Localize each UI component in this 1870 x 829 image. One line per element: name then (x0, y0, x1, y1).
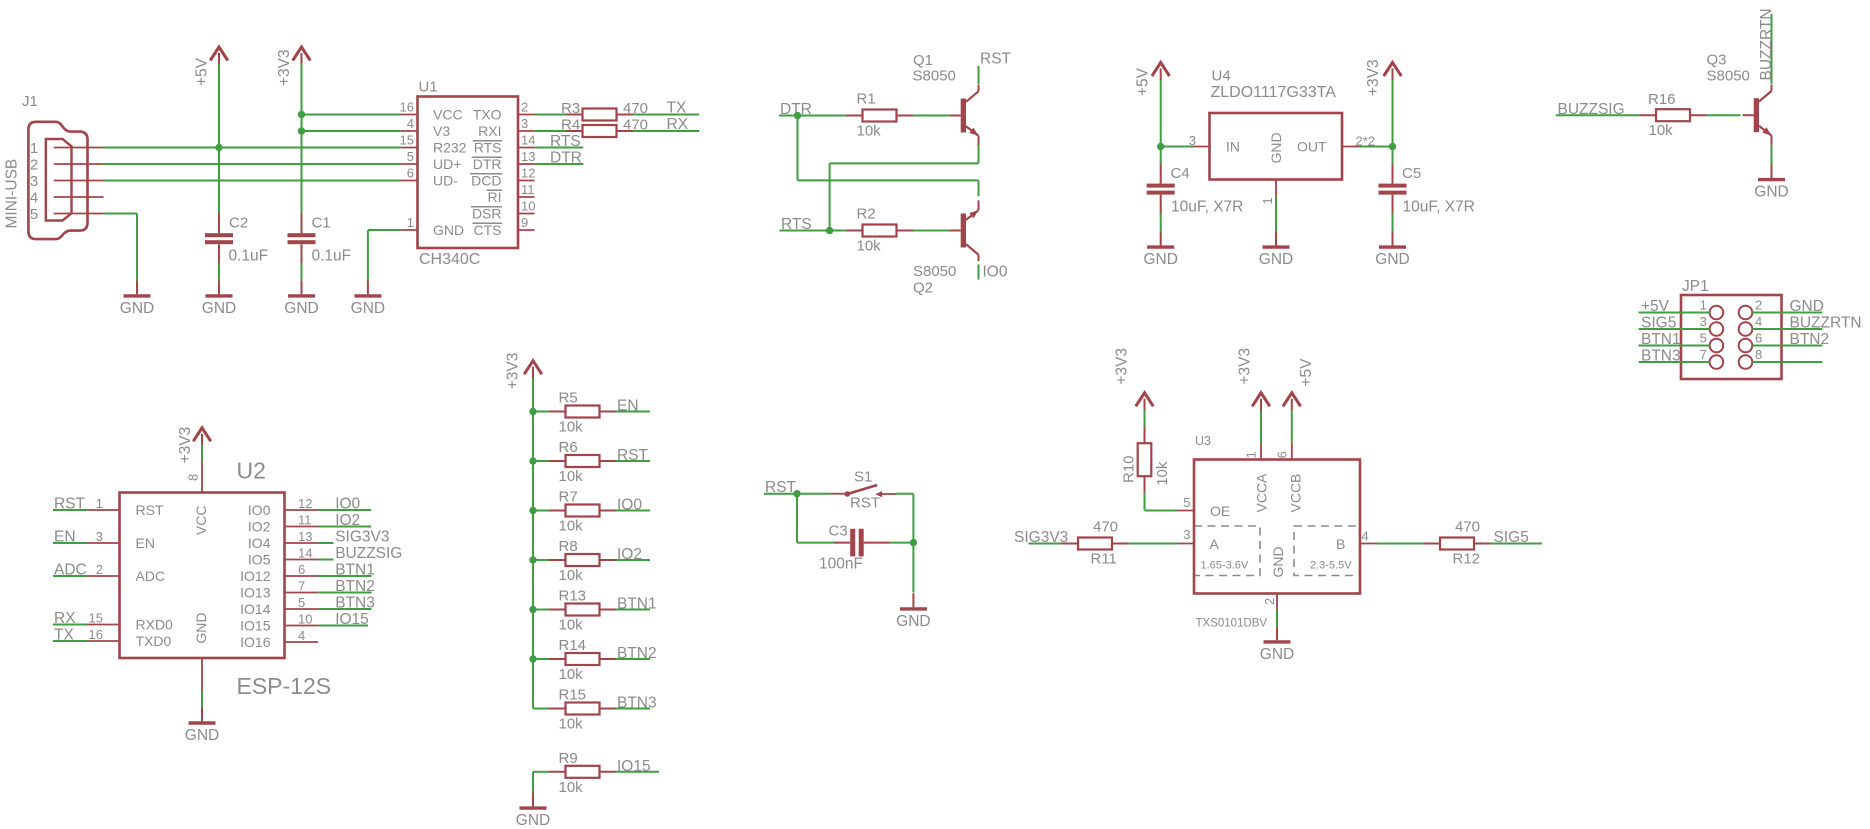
svg-text:1: 1 (407, 215, 414, 230)
svg-text:+3V3: +3V3 (1237, 348, 1254, 385)
svg-text:ADC: ADC (136, 568, 166, 584)
svg-text:TXO: TXO (473, 107, 502, 123)
svg-text:GND: GND (1268, 132, 1284, 163)
svg-text:TX: TX (667, 100, 687, 117)
svg-text:CH340C: CH340C (419, 251, 480, 268)
svg-text:EN: EN (617, 398, 639, 415)
svg-text:10k: 10k (1154, 461, 1171, 486)
svg-text:DCD: DCD (471, 173, 501, 189)
svg-text:R12: R12 (1453, 551, 1481, 568)
svg-text:A: A (1210, 536, 1220, 552)
svg-text:GND: GND (1143, 251, 1177, 268)
svg-text:IO15: IO15 (335, 611, 369, 628)
svg-text:11: 11 (521, 182, 535, 197)
svg-text:R4: R4 (561, 117, 580, 134)
svg-text:BTN1: BTN1 (335, 561, 375, 578)
svg-text:IO0: IO0 (983, 264, 1008, 281)
svg-text:12: 12 (298, 496, 312, 511)
svg-text:IN: IN (1226, 139, 1240, 155)
svg-text:IO16: IO16 (240, 634, 271, 650)
svg-text:IO15: IO15 (240, 617, 271, 633)
svg-text:4: 4 (1755, 314, 1762, 329)
svg-text:5: 5 (298, 595, 305, 610)
svg-text:11: 11 (298, 513, 312, 528)
svg-text:IO2: IO2 (248, 518, 271, 534)
svg-text:IO15: IO15 (617, 758, 651, 775)
svg-text:RI: RI (488, 189, 502, 205)
svg-text:2: 2 (521, 100, 528, 115)
svg-text:7: 7 (1700, 347, 1707, 362)
svg-text:MINI-USB: MINI-USB (4, 159, 21, 229)
svg-text:IO5: IO5 (248, 551, 271, 567)
svg-text:3: 3 (96, 529, 103, 544)
svg-text:GND: GND (202, 300, 236, 317)
svg-text:5: 5 (1700, 330, 1707, 345)
svg-text:ESP-12S: ESP-12S (237, 673, 332, 699)
svg-text:RST: RST (136, 502, 164, 518)
svg-text:VCC: VCC (433, 107, 463, 123)
svg-text:RX: RX (667, 116, 689, 133)
svg-text:DTR: DTR (473, 156, 502, 172)
svg-text:10: 10 (298, 612, 312, 627)
svg-text:SIG5: SIG5 (1641, 314, 1676, 331)
svg-text:GND: GND (193, 612, 209, 643)
svg-text:IO2: IO2 (617, 546, 642, 563)
svg-text:2: 2 (96, 562, 103, 577)
svg-text:C3: C3 (829, 523, 848, 540)
svg-text:R6: R6 (559, 439, 578, 456)
svg-text:8: 8 (1755, 347, 1762, 362)
svg-text:RST: RST (850, 495, 880, 512)
svg-text:15: 15 (89, 611, 103, 626)
svg-text:16: 16 (400, 100, 414, 115)
svg-text:2: 2 (1755, 297, 1762, 312)
svg-text:6: 6 (298, 562, 305, 577)
svg-text:+5V: +5V (194, 57, 211, 86)
svg-text:10k: 10k (559, 567, 584, 584)
svg-text:VCCB: VCCB (1288, 474, 1304, 513)
svg-text:5: 5 (30, 206, 38, 223)
svg-text:+5V: +5V (1135, 67, 1152, 96)
svg-text:IO13: IO13 (240, 584, 271, 600)
svg-text:SIG5: SIG5 (1494, 529, 1529, 546)
svg-text:SIG3V3: SIG3V3 (335, 528, 389, 545)
svg-text:6: 6 (407, 166, 414, 181)
svg-text:GND: GND (284, 300, 318, 317)
svg-text:5: 5 (407, 149, 414, 164)
svg-text:5: 5 (1183, 495, 1190, 510)
svg-text:8: 8 (186, 474, 201, 481)
svg-text:BTN3: BTN3 (617, 695, 657, 712)
svg-text:BUZZRTN: BUZZRTN (1790, 314, 1862, 331)
svg-text:VCCA: VCCA (1254, 473, 1270, 513)
svg-text:4: 4 (30, 189, 38, 206)
svg-text:4: 4 (1362, 529, 1369, 544)
svg-text:14: 14 (298, 546, 312, 561)
svg-text:U4: U4 (1212, 68, 1231, 85)
svg-text:C1: C1 (312, 215, 331, 232)
svg-text:14: 14 (521, 133, 535, 148)
svg-text:R1: R1 (857, 91, 876, 108)
svg-text:470: 470 (1093, 519, 1118, 536)
svg-text:GND: GND (351, 300, 385, 317)
svg-text:R5: R5 (559, 390, 578, 407)
svg-text:10k: 10k (559, 468, 584, 485)
svg-text:+3V3: +3V3 (276, 49, 293, 86)
svg-text:GND: GND (1259, 251, 1293, 268)
svg-text:S8050: S8050 (1707, 68, 1750, 85)
svg-text:ZLDO1117G33TA: ZLDO1117G33TA (1211, 84, 1337, 101)
svg-text:10k: 10k (559, 617, 584, 634)
svg-text:R14: R14 (559, 637, 587, 654)
svg-text:OUT: OUT (1297, 139, 1327, 155)
svg-text:1: 1 (1700, 297, 1707, 312)
svg-text:+3V3: +3V3 (1114, 348, 1131, 385)
svg-text:+5V: +5V (1298, 358, 1315, 387)
svg-text:S8050: S8050 (913, 68, 956, 85)
svg-text:R8: R8 (559, 538, 578, 555)
svg-text:R232: R232 (433, 140, 467, 156)
svg-text:V3: V3 (433, 123, 450, 139)
svg-text:BTN1: BTN1 (617, 596, 657, 613)
svg-text:+3V3: +3V3 (177, 427, 194, 464)
svg-text:R11: R11 (1091, 551, 1117, 568)
svg-text:10uF, X7R: 10uF, X7R (1171, 199, 1243, 216)
svg-text:BUZZRTN: BUZZRTN (1758, 8, 1775, 80)
svg-text:7: 7 (298, 579, 305, 594)
svg-text:RST: RST (980, 51, 1012, 68)
svg-text:3: 3 (1189, 133, 1196, 148)
svg-text:TXD0: TXD0 (136, 633, 172, 649)
svg-text:10k: 10k (559, 666, 584, 683)
svg-text:10uF, X7R: 10uF, X7R (1403, 199, 1475, 216)
svg-text:GND: GND (516, 812, 550, 829)
svg-text:IO2: IO2 (335, 512, 360, 529)
svg-text:EN: EN (136, 535, 155, 551)
svg-text:S1: S1 (854, 469, 872, 486)
svg-text:3: 3 (521, 116, 528, 131)
svg-text:10k: 10k (559, 779, 584, 796)
svg-text:UD+: UD+ (433, 156, 461, 172)
svg-text:4: 4 (407, 116, 414, 131)
svg-text:RXI: RXI (478, 123, 501, 139)
svg-text:1: 1 (1244, 451, 1259, 458)
svg-text:BTN2: BTN2 (335, 578, 375, 595)
svg-text:GND: GND (120, 300, 154, 317)
svg-text:GND: GND (896, 613, 930, 630)
svg-text:U2: U2 (237, 458, 266, 484)
svg-text:0.1uF: 0.1uF (312, 248, 352, 265)
svg-text:JP1: JP1 (1682, 278, 1709, 295)
svg-text:B: B (1336, 536, 1345, 552)
svg-text:U3: U3 (1195, 434, 1211, 448)
svg-text:1.65-3.6V: 1.65-3.6V (1201, 560, 1249, 572)
svg-text:RTS: RTS (550, 133, 581, 150)
svg-text:R16: R16 (1648, 91, 1676, 108)
svg-text:C2: C2 (229, 215, 248, 232)
svg-text:CTS: CTS (474, 222, 502, 238)
svg-text:10k: 10k (559, 716, 584, 733)
svg-text:GND: GND (185, 727, 219, 744)
svg-text:R9: R9 (559, 750, 578, 767)
svg-text:Q2: Q2 (913, 279, 933, 296)
svg-text:6: 6 (1755, 330, 1762, 345)
svg-text:RST: RST (617, 447, 649, 464)
svg-text:470: 470 (623, 100, 648, 117)
svg-text:13: 13 (521, 149, 535, 164)
svg-text:10k: 10k (559, 419, 584, 436)
svg-text:GND: GND (1270, 546, 1286, 577)
svg-text:3: 3 (30, 173, 38, 190)
svg-text:IO0: IO0 (335, 495, 360, 512)
svg-text:100nF: 100nF (819, 556, 863, 573)
svg-text:+3V3: +3V3 (1365, 59, 1382, 96)
svg-text:6: 6 (1275, 451, 1290, 458)
svg-text:VCC: VCC (193, 506, 209, 536)
svg-text:IO12: IO12 (240, 568, 271, 584)
svg-text:OE: OE (1210, 503, 1230, 519)
svg-text:10k: 10k (857, 123, 882, 140)
svg-text:C4: C4 (1171, 165, 1190, 182)
svg-text:RTS: RTS (474, 140, 502, 156)
svg-text:TXS0101DBV: TXS0101DBV (1196, 618, 1268, 630)
svg-text:Q1: Q1 (913, 52, 933, 69)
svg-text:GND: GND (1790, 298, 1824, 315)
svg-text:470: 470 (623, 117, 648, 134)
svg-text:BTN1: BTN1 (1641, 331, 1681, 348)
svg-text:2.3-5.5V: 2.3-5.5V (1310, 560, 1352, 572)
svg-text:IO0: IO0 (248, 502, 271, 518)
svg-text:R2: R2 (857, 206, 876, 223)
svg-text:13: 13 (298, 529, 312, 544)
svg-text:0.1uF: 0.1uF (229, 248, 269, 265)
svg-text:IO4: IO4 (248, 535, 271, 551)
svg-text:4: 4 (298, 628, 305, 643)
svg-text:C5: C5 (1402, 165, 1421, 182)
svg-text:BTN2: BTN2 (617, 645, 657, 662)
svg-text:R15: R15 (559, 687, 587, 704)
svg-text:9: 9 (521, 215, 528, 230)
svg-text:2: 2 (1262, 598, 1277, 605)
svg-text:10k: 10k (559, 518, 584, 535)
svg-text:+5V: +5V (1641, 298, 1670, 315)
svg-text:BTN3: BTN3 (1641, 347, 1681, 364)
svg-text:+3V3: +3V3 (505, 353, 522, 390)
svg-text:1: 1 (96, 496, 103, 511)
svg-text:RXD0: RXD0 (136, 616, 174, 632)
svg-text:IO0: IO0 (617, 497, 642, 514)
svg-text:1: 1 (30, 140, 38, 157)
svg-text:S8050: S8050 (913, 263, 956, 280)
svg-text:R10: R10 (1121, 455, 1138, 483)
svg-text:GND: GND (1754, 184, 1788, 201)
svg-text:10: 10 (521, 199, 535, 214)
svg-text:GND: GND (1375, 251, 1409, 268)
svg-text:470: 470 (1455, 519, 1480, 536)
svg-text:R7: R7 (559, 489, 578, 506)
svg-text:BUZZSIG: BUZZSIG (335, 545, 402, 562)
svg-text:IO14: IO14 (240, 601, 271, 617)
svg-text:J1: J1 (22, 93, 38, 110)
svg-text:GND: GND (433, 222, 464, 238)
svg-text:16: 16 (89, 627, 103, 642)
svg-text:15: 15 (400, 133, 414, 148)
svg-text:R13: R13 (559, 588, 587, 605)
svg-text:Q3: Q3 (1707, 52, 1727, 69)
svg-text:BTN2: BTN2 (1790, 331, 1830, 348)
svg-text:UD-: UD- (433, 173, 458, 189)
svg-text:10k: 10k (1649, 122, 1674, 139)
svg-text:GND: GND (1260, 646, 1294, 663)
svg-text:12: 12 (521, 166, 535, 181)
svg-text:U1: U1 (419, 79, 438, 96)
svg-text:10k: 10k (857, 238, 882, 255)
svg-text:1: 1 (1260, 197, 1275, 204)
svg-text:DSR: DSR (472, 206, 502, 222)
svg-text:3: 3 (1700, 314, 1707, 329)
svg-text:2: 2 (30, 156, 38, 173)
svg-text:BTN3: BTN3 (335, 594, 375, 611)
svg-text:DTR: DTR (550, 150, 582, 167)
svg-text:R3: R3 (561, 100, 580, 117)
svg-text:3: 3 (1183, 527, 1190, 542)
